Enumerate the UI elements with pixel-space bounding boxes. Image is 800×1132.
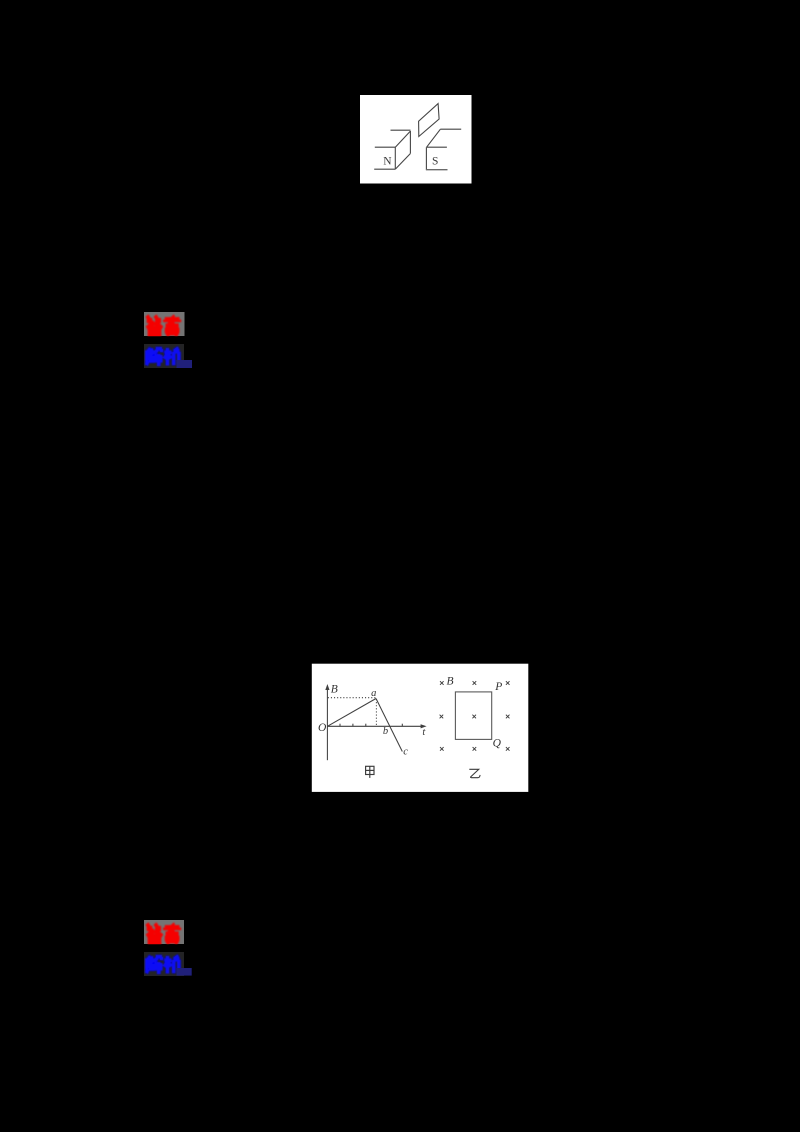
falling segment a-c [376, 699, 402, 752]
caption yi (figure B) [469, 769, 480, 777]
B axis arrowhead [325, 684, 329, 690]
navy shaded run 2 [177, 968, 192, 976]
S pole top-front slant [427, 129, 441, 147]
caption jia (figure A) [366, 766, 374, 778]
S pole back-top edge [440, 128, 461, 130]
S pole left vertical edge [425, 147, 427, 170]
S pole bottom edge [426, 169, 448, 171]
N pole left top edge [375, 146, 395, 148]
svg-text:c: c [403, 747, 408, 758]
coil parallelogram [419, 104, 440, 137]
N pole bottom-front slant [396, 154, 411, 169]
svg-text:a: a [371, 688, 376, 699]
t axis [327, 725, 423, 727]
dotted drop line [375, 699, 377, 726]
coil rectangle PQ [455, 692, 491, 740]
t axis arrowhead [421, 724, 427, 728]
svg-text:B: B [446, 675, 453, 687]
B axis [326, 688, 328, 761]
svg-text:S: S [432, 155, 438, 167]
N pole front vertical edge [394, 147, 396, 169]
svg-text:P: P [494, 681, 502, 693]
axis ticks [339, 724, 341, 727]
S pole top edge [427, 146, 447, 148]
svg-text:O: O [318, 722, 327, 734]
rising segment O-a [327, 699, 376, 727]
N pole bottom edge [374, 168, 395, 170]
N pole top-front slant [395, 131, 410, 147]
dotted level line [328, 697, 376, 699]
N pole back-top edge [391, 129, 411, 131]
svg-text:B: B [331, 684, 338, 696]
N pole right vertical edge [409, 131, 411, 154]
navy shaded run 1 [177, 360, 193, 368]
svg-text:Q: Q [493, 738, 502, 750]
field cross marks [440, 681, 510, 750]
svg-text:b: b [383, 726, 388, 737]
svg-text:N: N [383, 155, 392, 167]
